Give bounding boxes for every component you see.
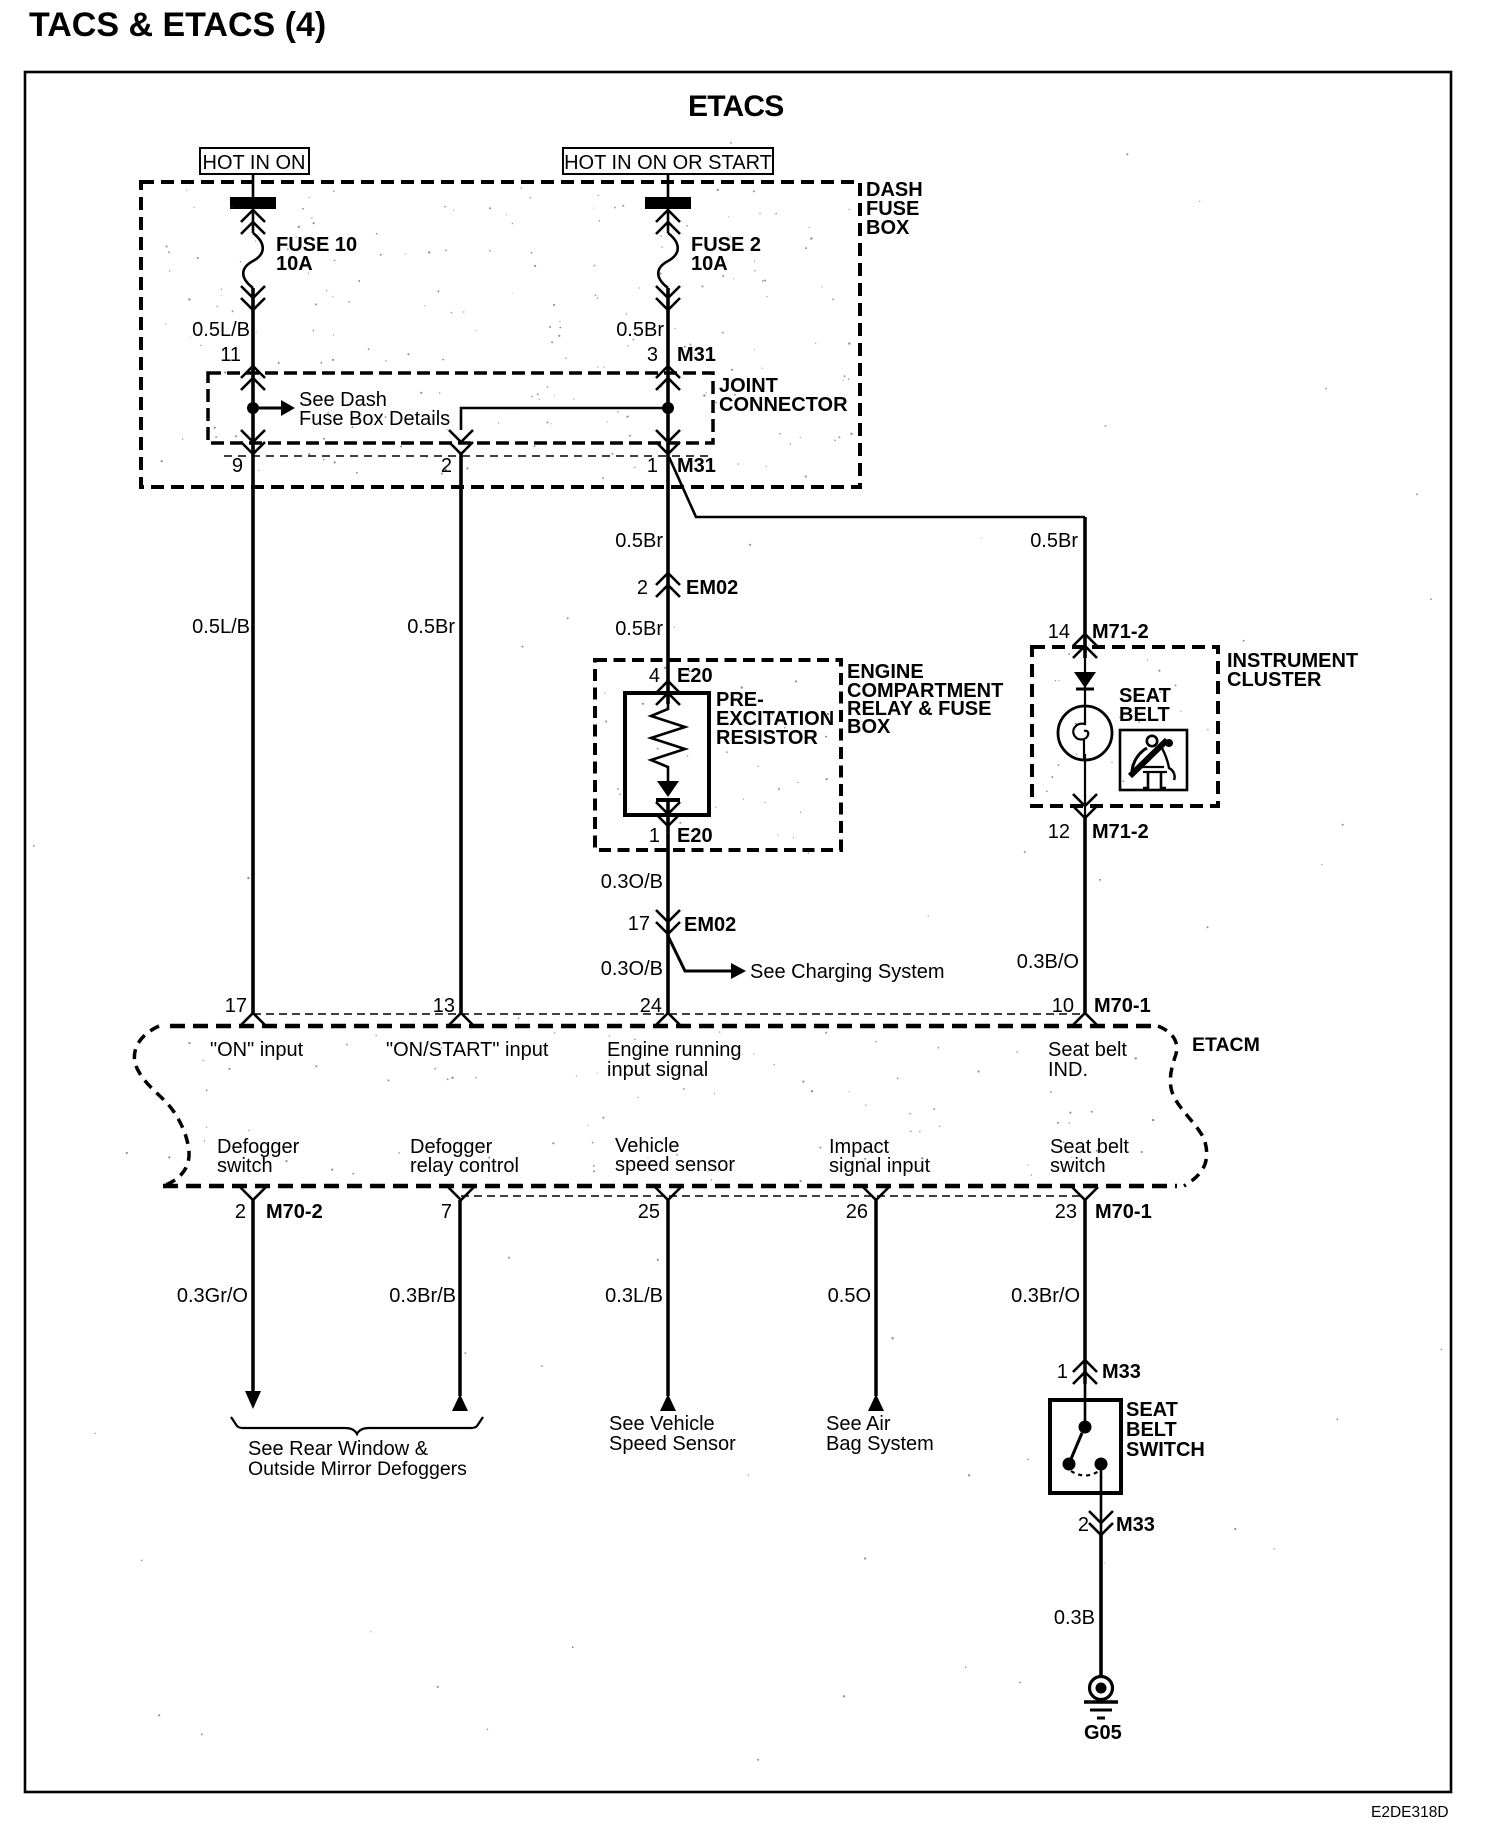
svg-text:10A: 10A — [276, 253, 313, 275]
svg-text:2: 2 — [637, 577, 648, 599]
see dash fuse box details label — [299, 389, 450, 430]
svg-text:26: 26 — [846, 1201, 868, 1223]
fuse 2 supply bar — [645, 197, 691, 209]
svg-text:0.5Br: 0.5Br — [615, 530, 663, 552]
ETACM label — [1192, 1034, 1260, 1056]
instrument cluster label — [1227, 650, 1358, 691]
pin 25 label — [638, 1201, 660, 1223]
wire label 0.3B/O — [1017, 951, 1079, 973]
svg-text:0.3Gr/O: 0.3Gr/O — [177, 1285, 248, 1307]
wire 0.3B/O down to ETACM — [1083, 818, 1087, 1013]
svg-text:0.3B: 0.3B — [1054, 1607, 1095, 1629]
svg-text:17: 17 — [628, 913, 650, 935]
brace under defogger wires — [231, 1417, 483, 1434]
connector E20 pin 4 label — [649, 665, 713, 687]
wire label 0.3Br/B — [389, 1285, 456, 1307]
svg-text:Fuse Box Details: Fuse Box Details — [299, 408, 450, 430]
wire 0.5Br from fuse 2 down — [666, 288, 670, 704]
pin 24 chevron — [655, 1013, 681, 1026]
pin 1 lower chevrons — [656, 430, 680, 454]
connector EM02 pin 17 chevrons — [656, 910, 680, 934]
pin 17 label (ETACM) — [225, 995, 247, 1017]
connector EM02 pin 2 label — [637, 577, 738, 599]
svg-text:M31: M31 — [677, 344, 716, 366]
svg-text:0.5Br: 0.5Br — [1030, 530, 1078, 552]
svg-text:CLUSTER: CLUSTER — [1227, 669, 1322, 691]
pin 2 lower chevrons — [449, 430, 473, 454]
svg-text:11: 11 — [220, 344, 241, 366]
switch SW contacts — [1063, 1421, 1108, 1476]
svg-text:E2DE318D: E2DE318D — [1371, 1804, 1449, 1821]
svg-text:25: 25 — [638, 1201, 660, 1223]
svg-text:Speed Sensor: Speed Sensor — [609, 1433, 736, 1455]
instrument cluster (dashed enclosure) — [1032, 647, 1218, 806]
dash fuse box label — [866, 179, 923, 239]
svg-text:BOX: BOX — [866, 217, 910, 239]
svg-text:9: 9 — [232, 455, 243, 477]
resistor R element zigzag — [651, 703, 685, 772]
engine compartment box label — [847, 661, 1003, 738]
svg-text:HOT IN ON: HOT IN ON — [203, 152, 306, 174]
wire label 0.5L/B (run) — [192, 616, 250, 638]
fuse 10 connector chevrons — [241, 210, 265, 234]
pin 2 chevron (bottom) — [240, 1187, 266, 1200]
wire from HOT IN ON to fuse 10 — [252, 174, 255, 233]
pin 13 label (ETACM) — [433, 995, 455, 1017]
svg-text:Outside Mirror Defoggers: Outside Mirror Defoggers — [248, 1458, 467, 1480]
wire label 0.3L/B — [605, 1285, 663, 1307]
wire below lamp — [1084, 754, 1086, 818]
branch arrow to charging system — [668, 936, 746, 979]
wire label 0.3Gr/O — [177, 1285, 248, 1307]
pin 9 label — [232, 455, 243, 477]
"ON/START" input label — [386, 1039, 549, 1061]
svg-text:0.5O: 0.5O — [828, 1285, 871, 1307]
joint connector label — [719, 375, 848, 416]
svg-text:CONNECTOR: CONNECTOR — [719, 394, 848, 416]
engine compartment relay & fuse box (dashed enclosure) — [595, 660, 841, 850]
connector M33 pin 2 chevrons — [1089, 1511, 1113, 1535]
svg-text:0.5Br: 0.5Br — [407, 616, 455, 638]
pin 11 connector chevrons — [241, 366, 265, 390]
svg-text:0.5L/B: 0.5L/B — [192, 616, 250, 638]
fuse 10 value label — [276, 234, 357, 275]
svg-text:14: 14 — [1048, 621, 1070, 643]
pin 2 label M70-2 — [235, 1201, 323, 1223]
seat belt switch box — [1050, 1400, 1121, 1493]
joint connector strip dashed line — [224, 455, 713, 457]
wire into seat belt switch — [1084, 1384, 1087, 1427]
svg-text:7: 7 — [441, 1201, 452, 1223]
svg-text:0.3O/B: 0.3O/B — [601, 958, 663, 980]
fuse F10 element — [243, 233, 263, 288]
wire 0.3O/B below resistor — [666, 800, 670, 1013]
joint connector (dashed box) — [208, 373, 713, 443]
svg-text:0.5Br: 0.5Br — [616, 319, 664, 341]
connector E20 pin 1 label — [649, 825, 713, 847]
pin 26 label — [846, 1201, 868, 1223]
svg-text:E20: E20 — [677, 825, 713, 847]
dash fuse box (dashed enclosure) — [141, 182, 860, 487]
connector M33 pin 1 chevrons — [1073, 1360, 1097, 1384]
ETACM module outline (dashed) — [134, 1026, 1206, 1186]
svg-text:BELT: BELT — [1126, 1419, 1177, 1441]
svg-text:See Charging System: See Charging System — [750, 961, 945, 983]
wire label 0.3Br/O — [1011, 1285, 1080, 1307]
svg-text:0.3L/B: 0.3L/B — [605, 1285, 663, 1307]
pre-excitation resistor box — [625, 693, 709, 815]
svg-text:10A: 10A — [691, 253, 728, 275]
vehicle speed sensor label — [615, 1135, 735, 1176]
wire from HOT IN ON OR START to fuse 2 — [667, 174, 670, 233]
connector M33 pin 1 label — [1057, 1361, 1141, 1383]
defogger switch label — [217, 1136, 300, 1177]
seat belt switch input label — [1050, 1136, 1129, 1177]
svg-text:0.3Br/O: 0.3Br/O — [1011, 1285, 1080, 1307]
svg-text:G05: G05 — [1084, 1722, 1122, 1744]
wire label 0.5Br (branch 2) — [407, 616, 455, 638]
svg-text:RESISTOR: RESISTOR — [716, 727, 818, 749]
pin 3 label M31 — [647, 344, 716, 366]
ground label G05 — [1084, 1722, 1122, 1744]
see rear window & outside mirror defoggers label — [248, 1438, 467, 1480]
wire label 0.3B — [1054, 1607, 1095, 1629]
svg-text:M71-2: M71-2 — [1092, 621, 1149, 643]
connector M71-2 pin 12 chevrons — [1073, 794, 1097, 818]
connector M71-2 pin 12 label — [1048, 821, 1149, 843]
connector E20 pin 1 chevrons — [656, 802, 680, 826]
ground G05 — [1084, 1677, 1118, 1719]
pin 3 connector chevrons — [656, 366, 680, 390]
svg-text:2: 2 — [1078, 1514, 1089, 1536]
pin 10 chevron — [1072, 1013, 1098, 1026]
connector EM02 pin 17 label — [628, 913, 737, 936]
fuse 2 lower chevrons — [656, 286, 680, 310]
pre-excitation resistor label — [716, 689, 834, 749]
svg-text:speed sensor: speed sensor — [615, 1154, 735, 1176]
diode D (seat belt warning) — [1074, 672, 1096, 689]
svg-text:switch: switch — [217, 1155, 273, 1177]
lamp L seat belt indicator — [1058, 706, 1112, 760]
pin 23 label M70-1 — [1055, 1201, 1152, 1223]
see vehicle speed sensor label — [609, 1413, 736, 1455]
wire label 0.3O/B (lower) — [601, 958, 663, 980]
wire label 0.3O/B — [601, 871, 663, 893]
svg-text:See Vehicle: See Vehicle — [609, 1413, 715, 1435]
fuse 2 connector chevrons — [656, 210, 680, 234]
connector M71-2 pin 14 label — [1048, 621, 1149, 643]
pin 9 lower chevrons — [241, 430, 265, 454]
wire out of seat belt switch — [1100, 1464, 1103, 1540]
svg-text:2: 2 — [235, 1201, 246, 1223]
svg-text:E20: E20 — [677, 665, 713, 687]
connector E20 pin 4 chevrons — [656, 681, 680, 705]
svg-text:1: 1 — [649, 825, 660, 847]
svg-text:See Air: See Air — [826, 1413, 891, 1435]
svg-text:ETACS: ETACS — [688, 90, 783, 123]
svg-text:switch: switch — [1050, 1155, 1106, 1177]
svg-text:23: 23 — [1055, 1201, 1077, 1223]
pin 7 chevron (bottom) — [448, 1187, 474, 1200]
pin 11 label — [220, 344, 241, 366]
wire label 0.5Br (above E20) — [615, 618, 663, 640]
wire 0.3Br/B defogger relay control — [452, 1200, 468, 1411]
pin 25 chevron (bottom) — [655, 1187, 681, 1200]
svg-text:TACS & ETACS (4): TACS & ETACS (4) — [29, 6, 326, 44]
wire label 0.5L/B — [192, 319, 250, 341]
svg-text:M70-1: M70-1 — [1095, 1201, 1152, 1223]
svg-text:0.3Br/B: 0.3Br/B — [389, 1285, 456, 1307]
svg-text:SEAT: SEAT — [1126, 1399, 1178, 1421]
seat belt IND. label — [1048, 1039, 1127, 1081]
pin 10 label M70-1 (ETACM) — [1052, 995, 1151, 1017]
svg-text:"ON/START" input: "ON/START" input — [386, 1039, 549, 1061]
svg-text:1: 1 — [647, 455, 658, 477]
svg-text:"ON" input: "ON" input — [210, 1039, 304, 1061]
wire 0.3B to ground — [1099, 1535, 1103, 1677]
svg-text:relay control: relay control — [410, 1155, 519, 1177]
svg-text:M33: M33 — [1102, 1361, 1141, 1383]
node HOT IN ON — [200, 148, 309, 174]
wire 0.5O impact signal — [868, 1200, 884, 1411]
wire label 0.5O — [828, 1285, 871, 1307]
svg-text:Seat belt: Seat belt — [1048, 1039, 1127, 1061]
connector strip dashed line (bottom) — [461, 1195, 1085, 1197]
wire 0.5L/B from fuse 10 down through joint connector — [251, 288, 255, 1013]
pin 7 label — [441, 1201, 452, 1223]
see dash fuse box details arrow — [259, 400, 295, 416]
svg-text:IND.: IND. — [1048, 1059, 1088, 1081]
node HOT IN ON OR START — [563, 148, 773, 174]
svg-text:Bag System: Bag System — [826, 1433, 934, 1455]
pin 13 chevron — [448, 1013, 474, 1026]
svg-text:3: 3 — [647, 344, 658, 366]
svg-text:EM02: EM02 — [686, 577, 738, 599]
wire branch to instrument cluster (diagonal + horizontal) — [669, 457, 1085, 517]
wire 0.3L/B vehicle speed sensor — [660, 1200, 676, 1411]
svg-text:1: 1 — [1057, 1361, 1068, 1383]
svg-text:signal input: signal input — [829, 1155, 931, 1177]
wire label 0.5Br (right) — [1030, 530, 1078, 552]
drawing number E2DE318D — [1371, 1804, 1449, 1821]
svg-text:See Rear Window &: See Rear Window & — [248, 1438, 429, 1460]
svg-text:0.3O/B: 0.3O/B — [601, 871, 663, 893]
fuse 2 value label — [691, 234, 761, 275]
svg-text:M70-2: M70-2 — [266, 1201, 323, 1223]
"ON" input label — [210, 1039, 304, 1061]
wire label 0.5Br — [616, 319, 664, 341]
see charging system label — [750, 961, 945, 983]
connector EM02 pin 2 chevrons — [656, 573, 680, 597]
svg-text:0.5L/B: 0.5L/B — [192, 319, 250, 341]
impact signal input label — [829, 1136, 931, 1177]
wire 0.5Br branch 2 down to ETACM — [459, 454, 463, 1013]
svg-text:4: 4 — [649, 665, 660, 687]
svg-text:M33: M33 — [1116, 1514, 1155, 1536]
svg-text:M70-1: M70-1 — [1094, 995, 1151, 1017]
pin 17 chevron — [240, 1013, 266, 1026]
engine running input signal label — [607, 1039, 742, 1081]
svg-text:12: 12 — [1048, 821, 1070, 843]
resistor output arrow (diode-like) — [656, 772, 680, 800]
fuse 10 lower chevrons — [241, 286, 265, 310]
svg-text:SWITCH: SWITCH — [1126, 1439, 1205, 1461]
svg-text:ETACM: ETACM — [1192, 1034, 1260, 1056]
wire from junction to branch 2 — [461, 408, 668, 430]
pin 24 label (ETACM) — [640, 995, 662, 1017]
fuse 10 supply bar — [230, 197, 276, 209]
connector strip dashed line (top) — [253, 1013, 1085, 1015]
heading ETACS — [688, 90, 783, 123]
seat belt telltale icon — [1120, 730, 1187, 790]
pin 2 label — [441, 455, 452, 477]
svg-text:Engine running: Engine running — [607, 1039, 742, 1061]
pin 26 chevron (bottom) — [863, 1187, 889, 1200]
svg-text:BOX: BOX — [847, 716, 891, 738]
svg-text:M31: M31 — [677, 455, 716, 477]
svg-text:0.3B/O: 0.3B/O — [1017, 951, 1079, 973]
wire label 0.5Br (center) — [615, 530, 663, 552]
seat belt label — [1119, 685, 1171, 726]
svg-text:M71-2: M71-2 — [1092, 821, 1149, 843]
svg-text:input signal: input signal — [607, 1059, 708, 1081]
defogger relay control label — [410, 1136, 519, 1177]
fuse F2 element — [658, 233, 678, 288]
page title TACS & ETACS (4) — [29, 6, 326, 44]
junction node on wire 1 — [247, 402, 259, 414]
svg-text:HOT IN ON OR START: HOT IN ON OR START — [564, 152, 772, 174]
connector M71-2 pin 14 chevrons — [1073, 634, 1097, 658]
connector M33 pin 2 label — [1078, 1514, 1155, 1536]
svg-text:17: 17 — [225, 995, 247, 1017]
see air bag system label — [826, 1413, 934, 1455]
svg-text:BELT: BELT — [1119, 704, 1170, 726]
pin 23 chevron (bottom) — [1072, 1187, 1098, 1200]
wire 0.5Br right branch down — [1083, 517, 1087, 658]
seat belt switch label — [1126, 1399, 1205, 1461]
pin 1 label M31 — [647, 455, 716, 477]
wire inside cluster — [1084, 658, 1086, 706]
junction node on wire 3 — [662, 402, 674, 414]
wire 0.3Gr/O defogger switch — [245, 1200, 261, 1409]
svg-text:0.5Br: 0.5Br — [615, 618, 663, 640]
svg-text:EM02: EM02 — [684, 914, 736, 936]
wire 0.3Br/O seat belt switch — [1083, 1200, 1087, 1384]
